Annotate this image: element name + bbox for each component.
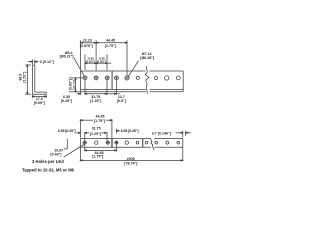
svg-text:44.45: 44.45 — [106, 39, 115, 43]
svg-text:31.75: 31.75 — [92, 127, 101, 131]
svg-text:[0.69"]: [0.69"] — [34, 101, 45, 105]
svg-text:2000: 2000 — [127, 157, 135, 161]
svg-text:[1.75"]: [1.75"] — [105, 44, 116, 48]
svg-text:Tapped to 10-32, M5 or M6: Tapped to 10-32, M5 or M6 — [22, 168, 75, 173]
svg-text:[0.625"]: [0.625"] — [97, 60, 106, 64]
svg-text:6.35 [0.25"]: 6.35 [0.25"] — [121, 129, 139, 133]
svg-text:21.12: 21.12 — [73, 80, 77, 89]
svg-text:22.23: 22.23 — [83, 39, 92, 43]
svg-text:3 Holes per Unit: 3 Holes per Unit — [32, 159, 64, 164]
svg-text:[1.25"]: [1.25"] — [90, 132, 101, 136]
svg-text:[0.43"]: [0.43"] — [50, 153, 61, 157]
svg-text:[Ø0.21"]: [Ø0.21"] — [60, 55, 74, 59]
svg-text:3 [0.12"]: 3 [0.12"] — [40, 60, 54, 64]
svg-text:[0.5"]: [0.5"] — [117, 99, 126, 103]
svg-text:44.45: 44.45 — [96, 114, 105, 118]
svg-text:[1.75"]: [1.75"] — [94, 119, 105, 123]
svg-text:[0.625"]: [0.625"] — [86, 60, 95, 64]
svg-text:6.35 [0.25"]: 6.35 [0.25"] — [58, 129, 76, 133]
svg-text:3.7 [0.146"]: 3.7 [0.146"] — [152, 131, 171, 135]
svg-text:[0.25"]: [0.25"] — [61, 99, 72, 103]
svg-text:[1.51"]: [1.51"] — [23, 72, 27, 83]
svg-text:[1.25"]: [1.25"] — [90, 99, 101, 103]
svg-text:[Ø0.28"]: [Ø0.28"] — [140, 56, 154, 60]
svg-text:[78.74"]: [78.74"] — [124, 162, 137, 166]
svg-text:[1.75"]: [1.75"] — [92, 155, 103, 159]
svg-text:[0.875"]: [0.875"] — [80, 44, 93, 48]
